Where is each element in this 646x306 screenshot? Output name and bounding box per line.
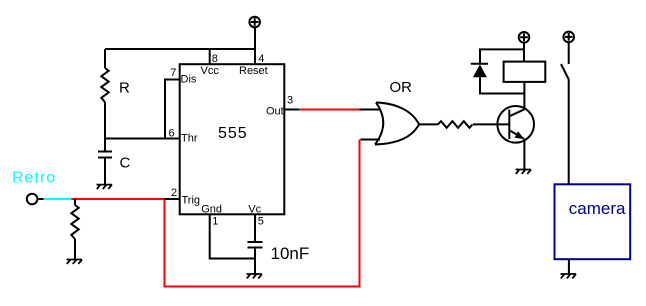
ground under Q1: [516, 170, 532, 174]
wire Thr horizontal: [105, 138, 180, 140]
svg-text:2: 2: [171, 187, 177, 199]
supply V2 (+) relay: [519, 32, 530, 43]
wire pin7 net: [165, 80, 180, 139]
wire R bottom to Thr junction: [104, 102, 106, 152]
svg-text:4: 4: [258, 53, 264, 65]
wire red out to OR: [299, 109, 360, 111]
wire camera to ground: [568, 259, 570, 274]
wire V3 to switch: [568, 42, 570, 64]
IC U1 555 body: [180, 64, 285, 214]
svg-text:Trig: Trig: [182, 194, 201, 206]
svg-text:camera: camera: [569, 199, 626, 218]
svg-text:Gnd: Gnd: [201, 203, 222, 215]
wire diode bottom: [480, 77, 524, 93]
wire R top: [104, 49, 106, 68]
wire red down from trig: [165, 140, 360, 287]
svg-text:5: 5: [258, 216, 264, 228]
supply V3 (+) switch: [563, 32, 574, 43]
resistor R: [101, 68, 108, 102]
ground under C2: [247, 274, 263, 278]
svg-text:Vcc: Vcc: [201, 65, 220, 77]
OR input stub B: [361, 139, 381, 141]
pin 2 stub: [165, 198, 180, 200]
transistor Q1: [497, 106, 534, 143]
terminal retro (open circle): [27, 194, 38, 205]
switch S1 blade: [561, 64, 569, 79]
ground under camera: [561, 274, 577, 278]
svg-text:555: 555: [218, 125, 248, 142]
relay K1 coil box: [504, 62, 546, 82]
capacitor C2 10nF: [248, 242, 263, 274]
wire switch to camera: [568, 79, 570, 184]
svg-text:1: 1: [212, 216, 218, 228]
wire V1 to pin4: [254, 27, 256, 64]
svg-text:OR: OR: [390, 79, 413, 96]
wire top rail to R: [105, 48, 255, 50]
pin 5 wire: [254, 214, 256, 242]
svg-text:8: 8: [212, 53, 218, 65]
svg-text:Reset: Reset: [239, 65, 268, 77]
wire V2 to relay: [523, 42, 525, 61]
svg-text:Thr: Thr: [181, 133, 198, 145]
wire pin8: [209, 49, 211, 65]
svg-text:Out: Out: [266, 105, 284, 117]
wire R3 to base: [473, 123, 509, 125]
supply V1 (+) top of 555: [249, 17, 260, 28]
resistor R2 (retro pulldown): [71, 199, 78, 260]
pin 3 stub: [285, 109, 300, 111]
Q1 emitter wire: [523, 138, 525, 169]
resistor R3 (base): [438, 121, 473, 128]
svg-text:6: 6: [169, 128, 175, 140]
OR input stub A: [360, 109, 381, 111]
svg-text:Retro: Retro: [12, 170, 56, 187]
wire retro cyan: [44, 198, 72, 200]
pin 1 wire: [210, 214, 255, 258]
ground under C: [97, 185, 113, 189]
terminal stub: [38, 198, 43, 200]
gate U2 OR: [375, 103, 419, 145]
wire diode top: [480, 49, 524, 64]
svg-text:R: R: [119, 80, 130, 97]
Q1 emitter arrow: [515, 131, 525, 139]
svg-text:3: 3: [287, 94, 293, 106]
svg-text:7: 7: [170, 67, 176, 79]
capacitor C: [98, 152, 112, 185]
svg-text:C: C: [120, 155, 131, 172]
svg-text:10nF: 10nF: [271, 244, 310, 263]
svg-text:Dis: Dis: [181, 74, 197, 86]
Q1 collector wire: [523, 83, 525, 110]
camera box: [555, 184, 631, 259]
diode D1: [471, 64, 488, 77]
ground under R2: [67, 260, 83, 264]
OR output wire: [419, 123, 438, 125]
wire retro red to trig: [72, 198, 166, 200]
svg-text:Vc: Vc: [248, 203, 261, 215]
